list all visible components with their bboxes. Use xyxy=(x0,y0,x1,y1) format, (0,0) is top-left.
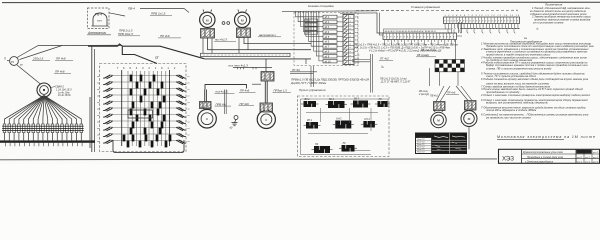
switch PK xyxy=(312,143,333,153)
wire D2 tail xyxy=(468,127,470,150)
svg-text:Д 2Г 2Г 4Б 4ВП, П 2 Д 4Г: Д 2Г 2Г 4Б 4ВП, П 2 Д 4Г xyxy=(380,81,411,84)
apparatus box column xyxy=(323,15,343,63)
value labels PRV feeders xyxy=(118,29,140,37)
note small KB xyxy=(418,90,429,96)
svg-text:тип: тип xyxy=(97,19,102,23)
motor D2 xyxy=(461,108,477,127)
svg-text:се по установке станка: се по установке станка xyxy=(533,22,564,25)
lamp LS xyxy=(375,98,390,107)
svg-text:ЛС: ЛС xyxy=(378,98,383,101)
wire hook row xyxy=(233,67,272,69)
parts table xyxy=(416,133,467,154)
svg-text:м: м xyxy=(437,118,440,123)
wire panel staircase xyxy=(282,11,377,61)
svg-text:кз: кз xyxy=(187,95,189,97)
svg-text:кз: кз xyxy=(187,128,189,130)
svg-text:с: с xyxy=(265,117,267,122)
notes list top xyxy=(530,6,591,25)
svg-text:ПРВ 4х1: ПРВ 4х1 xyxy=(216,102,227,106)
button KN-1 xyxy=(304,119,321,129)
svg-text:кз: кз xyxy=(187,108,189,110)
wire dashed link xyxy=(356,9,518,11)
svg-text:кз: кз xyxy=(187,76,189,78)
cable fan wires xyxy=(5,96,82,125)
svg-text:Сменал: Сменал xyxy=(417,134,427,138)
svg-text:РВ-4: РВ-4 xyxy=(95,13,102,17)
svg-text:Дз(АБ) ПУТ, П-4БПУ 4б/мм: Дз(АБ) ПУТ, П-4БПУ 4б/мм xyxy=(290,81,326,85)
terminal strip TS2 label box xyxy=(384,29,452,33)
label avtomatich xyxy=(258,33,281,37)
wire feed to panel upper xyxy=(244,38,311,44)
svg-text:ЛК: ЛК xyxy=(342,142,347,145)
svg-text:ПВ 4х6 (2х6): ПВ 4х6 (2х6) xyxy=(421,49,436,52)
wire bracket to C1 xyxy=(205,90,207,102)
svg-text:Примечания: Примечания xyxy=(545,3,563,7)
svg-text:кз: кз xyxy=(187,115,189,117)
label PV-4 xyxy=(128,7,135,11)
svg-text:ред 1: ред 1 xyxy=(576,151,582,154)
svg-text:ред 1: ред 1 xyxy=(584,151,590,154)
wire main feeder horizontal xyxy=(38,44,121,46)
cable note band A xyxy=(353,44,458,53)
svg-text:низ 4х2,5: низ 4х2,5 xyxy=(215,38,227,42)
svg-text:ПРВ 2х1,5: ПРВ 2х1,5 xyxy=(151,12,166,16)
svg-text:кз: кз xyxy=(187,141,189,143)
cable bracket over motors xyxy=(205,84,261,89)
svg-text:с: с xyxy=(206,116,208,121)
relay PB-4 enclosure xyxy=(88,8,110,29)
drum row bracket xyxy=(128,110,153,118)
terminal box of C1 xyxy=(200,102,212,109)
svg-text:зб 10: зб 10 xyxy=(324,60,332,63)
svg-text:ру: ру xyxy=(11,60,15,64)
value label niz 4x2,5 xyxy=(214,38,236,42)
svg-text:ред 1: ред 1 xyxy=(576,160,582,163)
svg-text:кз: кз xyxy=(187,82,189,84)
wire J1 to C2 xyxy=(265,81,267,103)
earth electrode symbol xyxy=(230,116,239,130)
svg-text:Кружносортировочные узлы схем: Кружносортировочные узлы схем xyxy=(523,151,563,154)
heading Primechaniya xyxy=(545,3,563,7)
wire D2 feeders xyxy=(456,86,472,101)
svg-text:Приводные и сигнал круж узла: Приводные и сигнал круж узла xyxy=(527,156,564,159)
svg-text:пошив 20ть обращать в отдель 4: пошив 20ть обращать в отдель 400мм xyxy=(486,108,536,112)
wire riser pair to pult xyxy=(370,54,372,93)
cable note mid right line1 xyxy=(380,78,407,81)
svg-text:ред 1: ред 1 xyxy=(592,160,598,163)
svg-text:кз: кз xyxy=(187,134,189,136)
switch VK-3 xyxy=(351,97,371,107)
lamp LK xyxy=(339,142,357,152)
wire riser right column xyxy=(429,68,431,86)
heading Tekhnicheskie trebovaniya xyxy=(510,40,542,44)
relay PB-4 coil xyxy=(92,13,109,27)
svg-text:кз: кз xyxy=(187,89,189,91)
terminal box of D2 xyxy=(465,101,477,111)
svg-text:ПР 4х6: ПР 4х6 xyxy=(240,102,250,106)
wire TS interconnects xyxy=(377,13,462,36)
svg-text:кз: кз xyxy=(187,121,189,123)
svg-text:зб 8: зб 8 xyxy=(324,51,330,54)
svg-text:низ чет 4х1,5: низ чет 4х1,5 xyxy=(229,63,249,67)
label Stantsiya upravleniya xyxy=(411,5,440,9)
terminal box of M2 xyxy=(237,28,251,38)
svg-text:ВК-2: ВК-2 xyxy=(329,98,335,101)
title block xyxy=(499,149,600,163)
wire duct bottom run xyxy=(204,59,311,64)
wire feed to panel lower xyxy=(208,38,312,50)
svg-text:ПВ 4х1: ПВ 4х1 xyxy=(430,95,439,98)
svg-text:Ь: Ь xyxy=(537,27,539,31)
svg-text:1ь: 1ь xyxy=(524,36,528,40)
motor C2 xyxy=(257,108,275,129)
motor C1 xyxy=(198,107,217,128)
value label PRV 2x1,5 xyxy=(150,12,172,16)
svg-text:мз: мз xyxy=(97,102,99,104)
technical requirements list xyxy=(480,41,594,119)
wire rail stubs right xyxy=(352,60,370,62)
svg-text:ред 1: ред 1 xyxy=(584,156,590,159)
wire M2 drops xyxy=(239,38,248,54)
svg-text:Станция управления: Станция управления xyxy=(411,5,440,9)
value label PV right xyxy=(430,95,439,98)
button KN-2 xyxy=(333,117,354,128)
svg-text:ред 1: ред 1 xyxy=(592,156,598,159)
panel enclosure xyxy=(294,13,358,66)
value label PR 4x6 right xyxy=(446,92,459,95)
svg-text:мз: мз xyxy=(97,141,99,143)
label PV 4x6 xyxy=(421,49,436,52)
cable reel SVK xyxy=(37,83,51,97)
svg-text:мз: мз xyxy=(97,82,99,84)
pult internal wiring xyxy=(301,99,389,155)
wire supply line xyxy=(140,8,189,12)
svg-text:станка. ПЕ-и пульта управления: станка. ПЕ-и пульта управления машиниста… xyxy=(486,66,552,70)
svg-text:низ 4х1,5: низ 4х1,5 xyxy=(216,90,228,94)
motor M2 xyxy=(235,10,250,28)
svg-text:4 Отмел с зачетами степенью пр: 4 Отмел с зачетами степенью проверить эл… xyxy=(481,93,591,97)
label RV graf xyxy=(416,54,436,57)
label niz chet 4x1,5 xyxy=(229,63,249,67)
cable reel data table xyxy=(51,85,72,98)
svg-text:зб 6: зб 6 xyxy=(324,41,330,44)
svg-text:2Б-4: 2Б-4 xyxy=(305,32,312,35)
svg-text:автоматич: автоматич xyxy=(259,33,276,37)
svg-text:7 6 5 4 3 2 1 0 1 2: 7 6 5 4 3 2 1 0 1 2 xyxy=(117,66,178,70)
svg-text:мз: мз xyxy=(97,76,99,78)
wire to cable reel xyxy=(17,65,41,85)
wire M1 drops xyxy=(203,38,212,53)
wire ladder bottom stubs xyxy=(290,66,317,87)
drum position numbers xyxy=(117,66,178,70)
svg-text:ред 1: ред 1 xyxy=(576,156,582,159)
svg-text:6 Подъём показались кромку авт: 6 Подъём показались кромку автомат объём… xyxy=(481,77,589,81)
switch VK-2 xyxy=(326,98,348,108)
value label PR 4x6 b xyxy=(239,102,255,106)
svg-text:4п 4п 1Б 8п: 4п 4п 1Б 8п xyxy=(58,94,71,97)
svg-text:П: П xyxy=(4,57,6,61)
value label PRZap 1,5 xyxy=(273,89,292,93)
svg-text:Реле Т2: Реле Т2 xyxy=(417,152,425,154)
terminal box of M1 xyxy=(201,29,215,39)
cable duct xyxy=(201,53,291,56)
junction box J1 xyxy=(261,72,274,82)
svg-text:КН-1: КН-1 xyxy=(307,119,313,122)
svg-text:м: м xyxy=(468,116,471,121)
svg-text:250х1,5: 250х1,5 xyxy=(32,57,44,61)
value label PR 4x6 a xyxy=(239,89,256,93)
svg-text:Нижняя площадка: Нижняя площадка xyxy=(308,4,334,8)
svg-text:ПР 4х6: ПР 4х6 xyxy=(240,89,250,93)
svg-text:зб 2: зб 2 xyxy=(324,21,330,24)
svg-text:2Б-2: 2Б-2 xyxy=(305,24,312,27)
bolt terminals between motors xyxy=(222,22,230,25)
svg-text:2Б-1: 2Б-1 xyxy=(305,20,312,23)
svg-text:мз: мз xyxy=(97,115,99,117)
label PG-5A xyxy=(292,68,300,72)
svg-text:м: м xyxy=(206,17,209,22)
svg-text:зб 7: зб 7 xyxy=(324,46,330,49)
svg-text:мз: мз xyxy=(97,108,99,110)
svg-text:выбрали, все установленной таб: выбрали, все установленной таблицы держа… xyxy=(486,101,548,105)
svg-text:м: м xyxy=(241,17,244,22)
svg-text:зб 3: зб 3 xyxy=(324,26,330,29)
drum contact segment bars xyxy=(123,75,172,148)
drum contact grid xyxy=(113,70,182,146)
drum controller PG label xyxy=(155,56,159,60)
value label PRV 4x1 xyxy=(215,102,232,106)
svg-text:Пульт управления: Пульт управления xyxy=(299,88,326,92)
terminal strip TS2 xyxy=(383,33,457,45)
value label niz 4x1,5 xyxy=(215,90,235,94)
wire duct to J1 xyxy=(265,59,267,72)
relay label boxes xyxy=(305,19,318,35)
wire to resistor bank xyxy=(455,40,457,60)
cable run to earthing xyxy=(225,90,227,115)
machine bed outline xyxy=(88,44,204,152)
cable note band B line2 xyxy=(290,81,326,85)
svg-text:мз: мз xyxy=(97,128,99,130)
svg-text:ПР 4х6: ПР 4х6 xyxy=(160,34,170,38)
drum finger contacts left xyxy=(97,75,113,144)
svg-text:зб 4: зб 4 xyxy=(324,31,330,34)
wire feeder drop 1 xyxy=(17,46,38,58)
drum controller enclosure xyxy=(100,64,187,153)
wire reel riser xyxy=(89,97,91,148)
cable termination row xyxy=(2,124,84,133)
svg-text:ред 1: ред 1 xyxy=(592,151,598,154)
junction box RU xyxy=(4,57,23,67)
svg-text:ред 1: ред 1 xyxy=(584,160,590,163)
svg-text:мз: мз xyxy=(97,121,99,123)
terminal strip TS1 xyxy=(444,17,520,26)
svg-text:2 (вст)Д: 2 (вст)Д xyxy=(418,93,429,96)
svg-text:ПР 4х6: ПР 4х6 xyxy=(55,70,65,74)
note montazhnaya label xyxy=(497,135,596,140)
switch VK-1 xyxy=(301,98,319,107)
svg-text:ХЭЗ: ХЭЗ xyxy=(502,156,514,163)
svg-text:кз: кз xyxy=(187,102,189,104)
terminal box of C2 xyxy=(260,103,273,112)
svg-text:г.Электрошарыкбургск: г.Электрошарыкбургск xyxy=(525,160,554,163)
label Nizhnyaya ploshchadka xyxy=(308,4,334,8)
cable note band B line1 xyxy=(291,78,370,82)
wire resistor drops xyxy=(440,72,459,86)
svg-text:зб 1: зб 1 xyxy=(324,16,330,19)
terminal rail celled bar xyxy=(343,15,360,65)
svg-text:ВК-1: ВК-1 xyxy=(305,98,311,101)
terminal box of D1 xyxy=(434,102,446,111)
resistor bank RV xyxy=(435,60,464,72)
svg-text:зб 9: зб 9 xyxy=(324,55,330,58)
pult enclosure xyxy=(298,96,390,157)
svg-text:зб 5: зб 5 xyxy=(324,36,330,39)
node mark 1b xyxy=(524,27,539,41)
svg-text:мз: мз xyxy=(97,134,99,136)
svg-text:Автоматич: Автоматич xyxy=(87,31,107,35)
ground bus bar xyxy=(0,140,95,142)
label Avtomatich xyxy=(87,31,111,35)
button KN-3 xyxy=(361,118,378,128)
svg-text:Монтажная электросхема на 1М л: Монтажная электросхема на 1М листе xyxy=(497,135,596,139)
value label 250x1,5 xyxy=(32,57,50,61)
TS1 numbering xyxy=(445,14,521,17)
motor M1 xyxy=(200,10,215,28)
svg-text:ПГ-5А: ПГ-5А xyxy=(292,68,300,72)
wire relay to line xyxy=(109,13,125,16)
motor D1 xyxy=(431,110,446,128)
value label PR 4x6 lower xyxy=(54,70,71,74)
wire D1 feeders xyxy=(436,86,450,102)
svg-text:ПРЗап 1,5: ПРЗап 1,5 xyxy=(274,89,288,93)
svg-text:ПГ: ПГ xyxy=(155,56,159,60)
svg-text:ПВ-4: ПВ-4 xyxy=(128,7,135,11)
svg-text:мз: мз xyxy=(97,89,99,91)
svg-text:ум проводить при частоте станк: ум проводить при частоте станка xyxy=(485,115,531,119)
svg-text:2Б-3: 2Б-3 xyxy=(305,28,312,31)
svg-text:КН-3: КН-3 xyxy=(364,118,370,121)
wires terminations to ground bar xyxy=(5,133,83,147)
svg-text:ПГ 4х2: ПГ 4х2 xyxy=(380,57,389,61)
label Pult upravleniya upper xyxy=(299,88,326,92)
cable note mid right line2 xyxy=(380,81,411,84)
label PG 4x2 xyxy=(379,57,393,61)
svg-text:ПРВ 10х1,5: ПРВ 10х1,5 xyxy=(118,32,133,36)
svg-text:КН-2: КН-2 xyxy=(336,117,342,120)
TS1 jumper hooks xyxy=(445,26,519,33)
value label PR 4x6 upper xyxy=(55,57,73,61)
svg-text:мз: мз xyxy=(97,95,99,97)
node b mark xyxy=(382,65,385,69)
label PG 1U xyxy=(158,34,181,38)
wire feeder drop 2 xyxy=(20,46,63,60)
svg-text:ПР 4х6: ПР 4х6 xyxy=(56,57,66,61)
drum finger contacts right xyxy=(176,75,189,144)
